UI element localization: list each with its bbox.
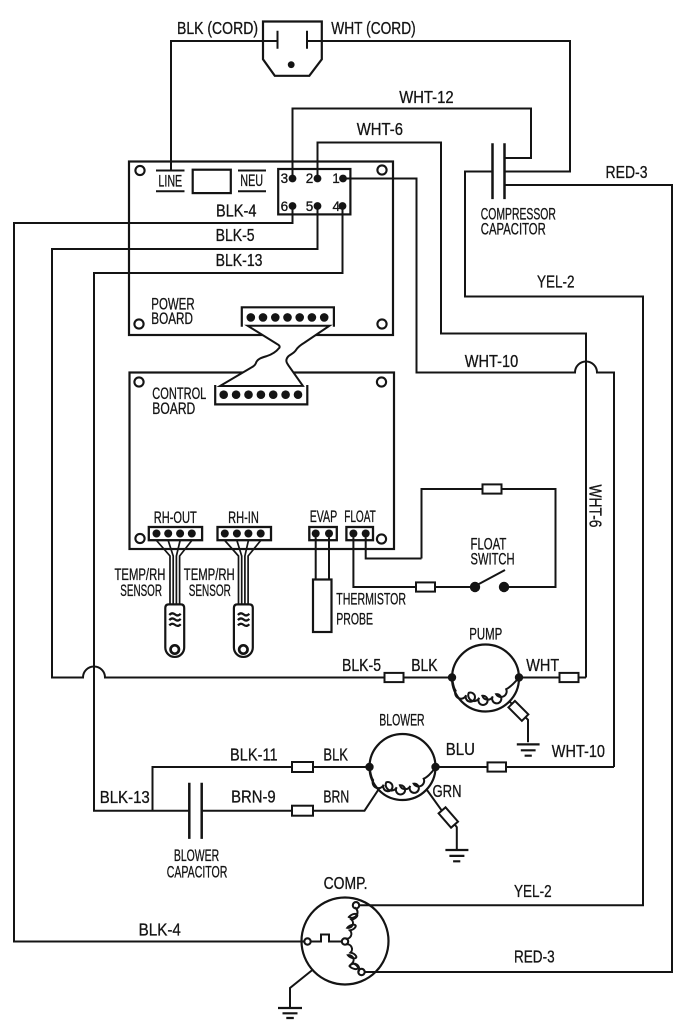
svg-text:WHT-12: WHT-12 [399,87,453,107]
svg-text:YEL-2: YEL-2 [514,881,552,901]
svg-text:COMP.: COMP. [324,873,368,893]
svg-text:BLK: BLK [411,655,438,675]
svg-text:BLK-13: BLK-13 [100,787,150,807]
svg-text:RH-OUT: RH-OUT [154,509,197,527]
svg-text:BLK-5: BLK-5 [342,655,381,675]
svg-text:4: 4 [333,199,341,214]
svg-text:2: 2 [306,171,314,186]
svg-text:WHT-10: WHT-10 [552,741,605,761]
svg-text:BOARD: BOARD [152,400,195,418]
svg-text:BRN: BRN [323,787,349,807]
svg-text:RED-3: RED-3 [606,162,648,182]
svg-text:LINE: LINE [158,172,182,191]
svg-text:WHT: WHT [526,655,559,675]
svg-text:RH-IN: RH-IN [228,509,259,527]
svg-text:BLU: BLU [446,739,475,759]
svg-text:BLOWER: BLOWER [174,847,219,865]
svg-text:3: 3 [281,171,289,186]
svg-text:1: 1 [332,171,340,186]
svg-text:BLK: BLK [323,745,348,765]
svg-text:EVAP: EVAP [310,508,338,526]
svg-text:PUMP: PUMP [469,626,502,644]
svg-text:WHT (CORD): WHT (CORD) [331,18,415,38]
svg-text:WHT-6: WHT-6 [357,119,403,139]
svg-text:BLK-5: BLK-5 [216,225,255,245]
svg-text:NEU: NEU [240,171,263,190]
svg-text:CAPACITOR: CAPACITOR [167,864,228,882]
svg-text:RED-3: RED-3 [514,947,555,967]
svg-text:5: 5 [306,199,314,214]
svg-text:BLOWER: BLOWER [379,712,424,730]
svg-text:WHT-10: WHT-10 [465,351,519,371]
svg-text:6: 6 [281,199,289,214]
svg-text:SENSOR: SENSOR [120,582,162,600]
svg-text:CAPACITOR: CAPACITOR [481,221,546,239]
svg-text:SENSOR: SENSOR [189,582,231,600]
svg-text:PROBE: PROBE [336,611,373,629]
svg-text:SWITCH: SWITCH [471,551,515,569]
svg-text:YEL-2: YEL-2 [537,272,575,292]
svg-text:WHT-6: WHT-6 [586,485,606,528]
svg-text:GRN: GRN [433,781,462,801]
svg-text:THERMISTOR: THERMISTOR [336,591,406,609]
svg-text:BLK-4: BLK-4 [216,201,257,221]
svg-text:BRN-9: BRN-9 [231,787,276,807]
svg-text:BOARD: BOARD [151,310,193,328]
svg-text:BLK-13: BLK-13 [216,250,263,270]
svg-text:BLK (CORD): BLK (CORD) [177,18,258,38]
svg-text:BLK-4: BLK-4 [139,920,182,940]
svg-text:BLK-11: BLK-11 [230,745,278,765]
svg-text:FLOAT: FLOAT [344,508,376,526]
